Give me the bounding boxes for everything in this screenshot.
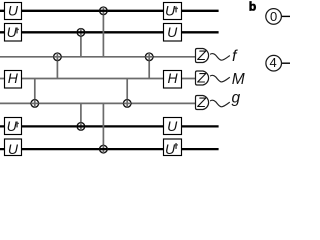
wire q5 (gray ancilla) <box>0 102 196 104</box>
control line q3-q4 right <box>148 57 150 79</box>
wire q7 <box>0 148 219 150</box>
wire q6 <box>0 125 219 127</box>
svg-text:U: U <box>165 141 176 157</box>
control line q5-q7 <box>102 103 104 149</box>
svg-text:H: H <box>168 70 179 86</box>
cnot target on q3 at x=149.2 <box>145 53 153 61</box>
qubit node 0 <box>266 9 290 25</box>
qubit node 4 <box>266 55 290 71</box>
cnot target on q5 at x=34.8 <box>31 100 39 108</box>
svg-text:H: H <box>8 70 19 86</box>
svg-text:U: U <box>167 24 178 40</box>
svg-text:4: 4 <box>269 55 276 70</box>
cnot target on q3 at x=57.4 <box>54 53 62 61</box>
control line q5-q6 <box>80 103 82 126</box>
svg-text:b: b <box>249 0 256 14</box>
measurement Z on q4 <box>196 70 209 86</box>
control line q4-q5 left <box>34 79 36 104</box>
cnot target on q1 at x=103.4 <box>100 7 108 15</box>
gate U-dagger q6 left <box>5 118 22 135</box>
gate U-dagger q7 right <box>164 139 182 157</box>
svg-text:U: U <box>165 3 176 19</box>
squiggle to M <box>210 75 230 82</box>
wire q4 (gray ancilla) <box>0 78 196 80</box>
wire q1 <box>0 10 219 12</box>
gate U-dagger q1 right <box>164 3 182 20</box>
svg-text:U: U <box>7 118 18 134</box>
gate U q1 left <box>5 3 22 20</box>
cnot target on q6 at x=80.9 <box>77 123 85 131</box>
control line q4-q5 right <box>126 79 128 104</box>
svg-text:U: U <box>7 24 18 40</box>
gate U q7 left <box>5 139 22 157</box>
control line q1-q3 <box>102 11 104 57</box>
svg-text:Z: Z <box>196 94 206 110</box>
cnot target on q7 at x=103.4 <box>100 145 108 153</box>
svg-text:U: U <box>8 141 19 157</box>
svg-text:Z: Z <box>196 70 206 86</box>
control line q2-q3 <box>80 32 82 57</box>
wire q3 (gray ancilla) <box>0 56 196 58</box>
squiggle to g <box>210 100 230 107</box>
wire q2 <box>0 31 219 33</box>
gate H q4 right <box>164 70 182 88</box>
svg-text:M: M <box>232 71 245 88</box>
measurement Z on q5 <box>196 94 209 110</box>
svg-text:0: 0 <box>270 9 277 24</box>
gate U-dagger q2 left <box>5 24 22 42</box>
gate U q6 right <box>164 118 182 135</box>
svg-text:U: U <box>167 118 178 134</box>
svg-text:U: U <box>8 3 19 19</box>
svg-text:g: g <box>232 90 241 107</box>
cnot target on q5 at x=127.2 <box>123 100 131 108</box>
measurement Z on q3 <box>196 47 209 63</box>
svg-text:Z: Z <box>196 47 206 63</box>
control line q3-q4 left <box>56 57 58 79</box>
gate U q2 right <box>164 24 182 42</box>
squiggle to f <box>210 54 230 61</box>
cnot target on q2 at x=80.9 <box>77 29 85 37</box>
gate H q4 left <box>5 70 22 88</box>
